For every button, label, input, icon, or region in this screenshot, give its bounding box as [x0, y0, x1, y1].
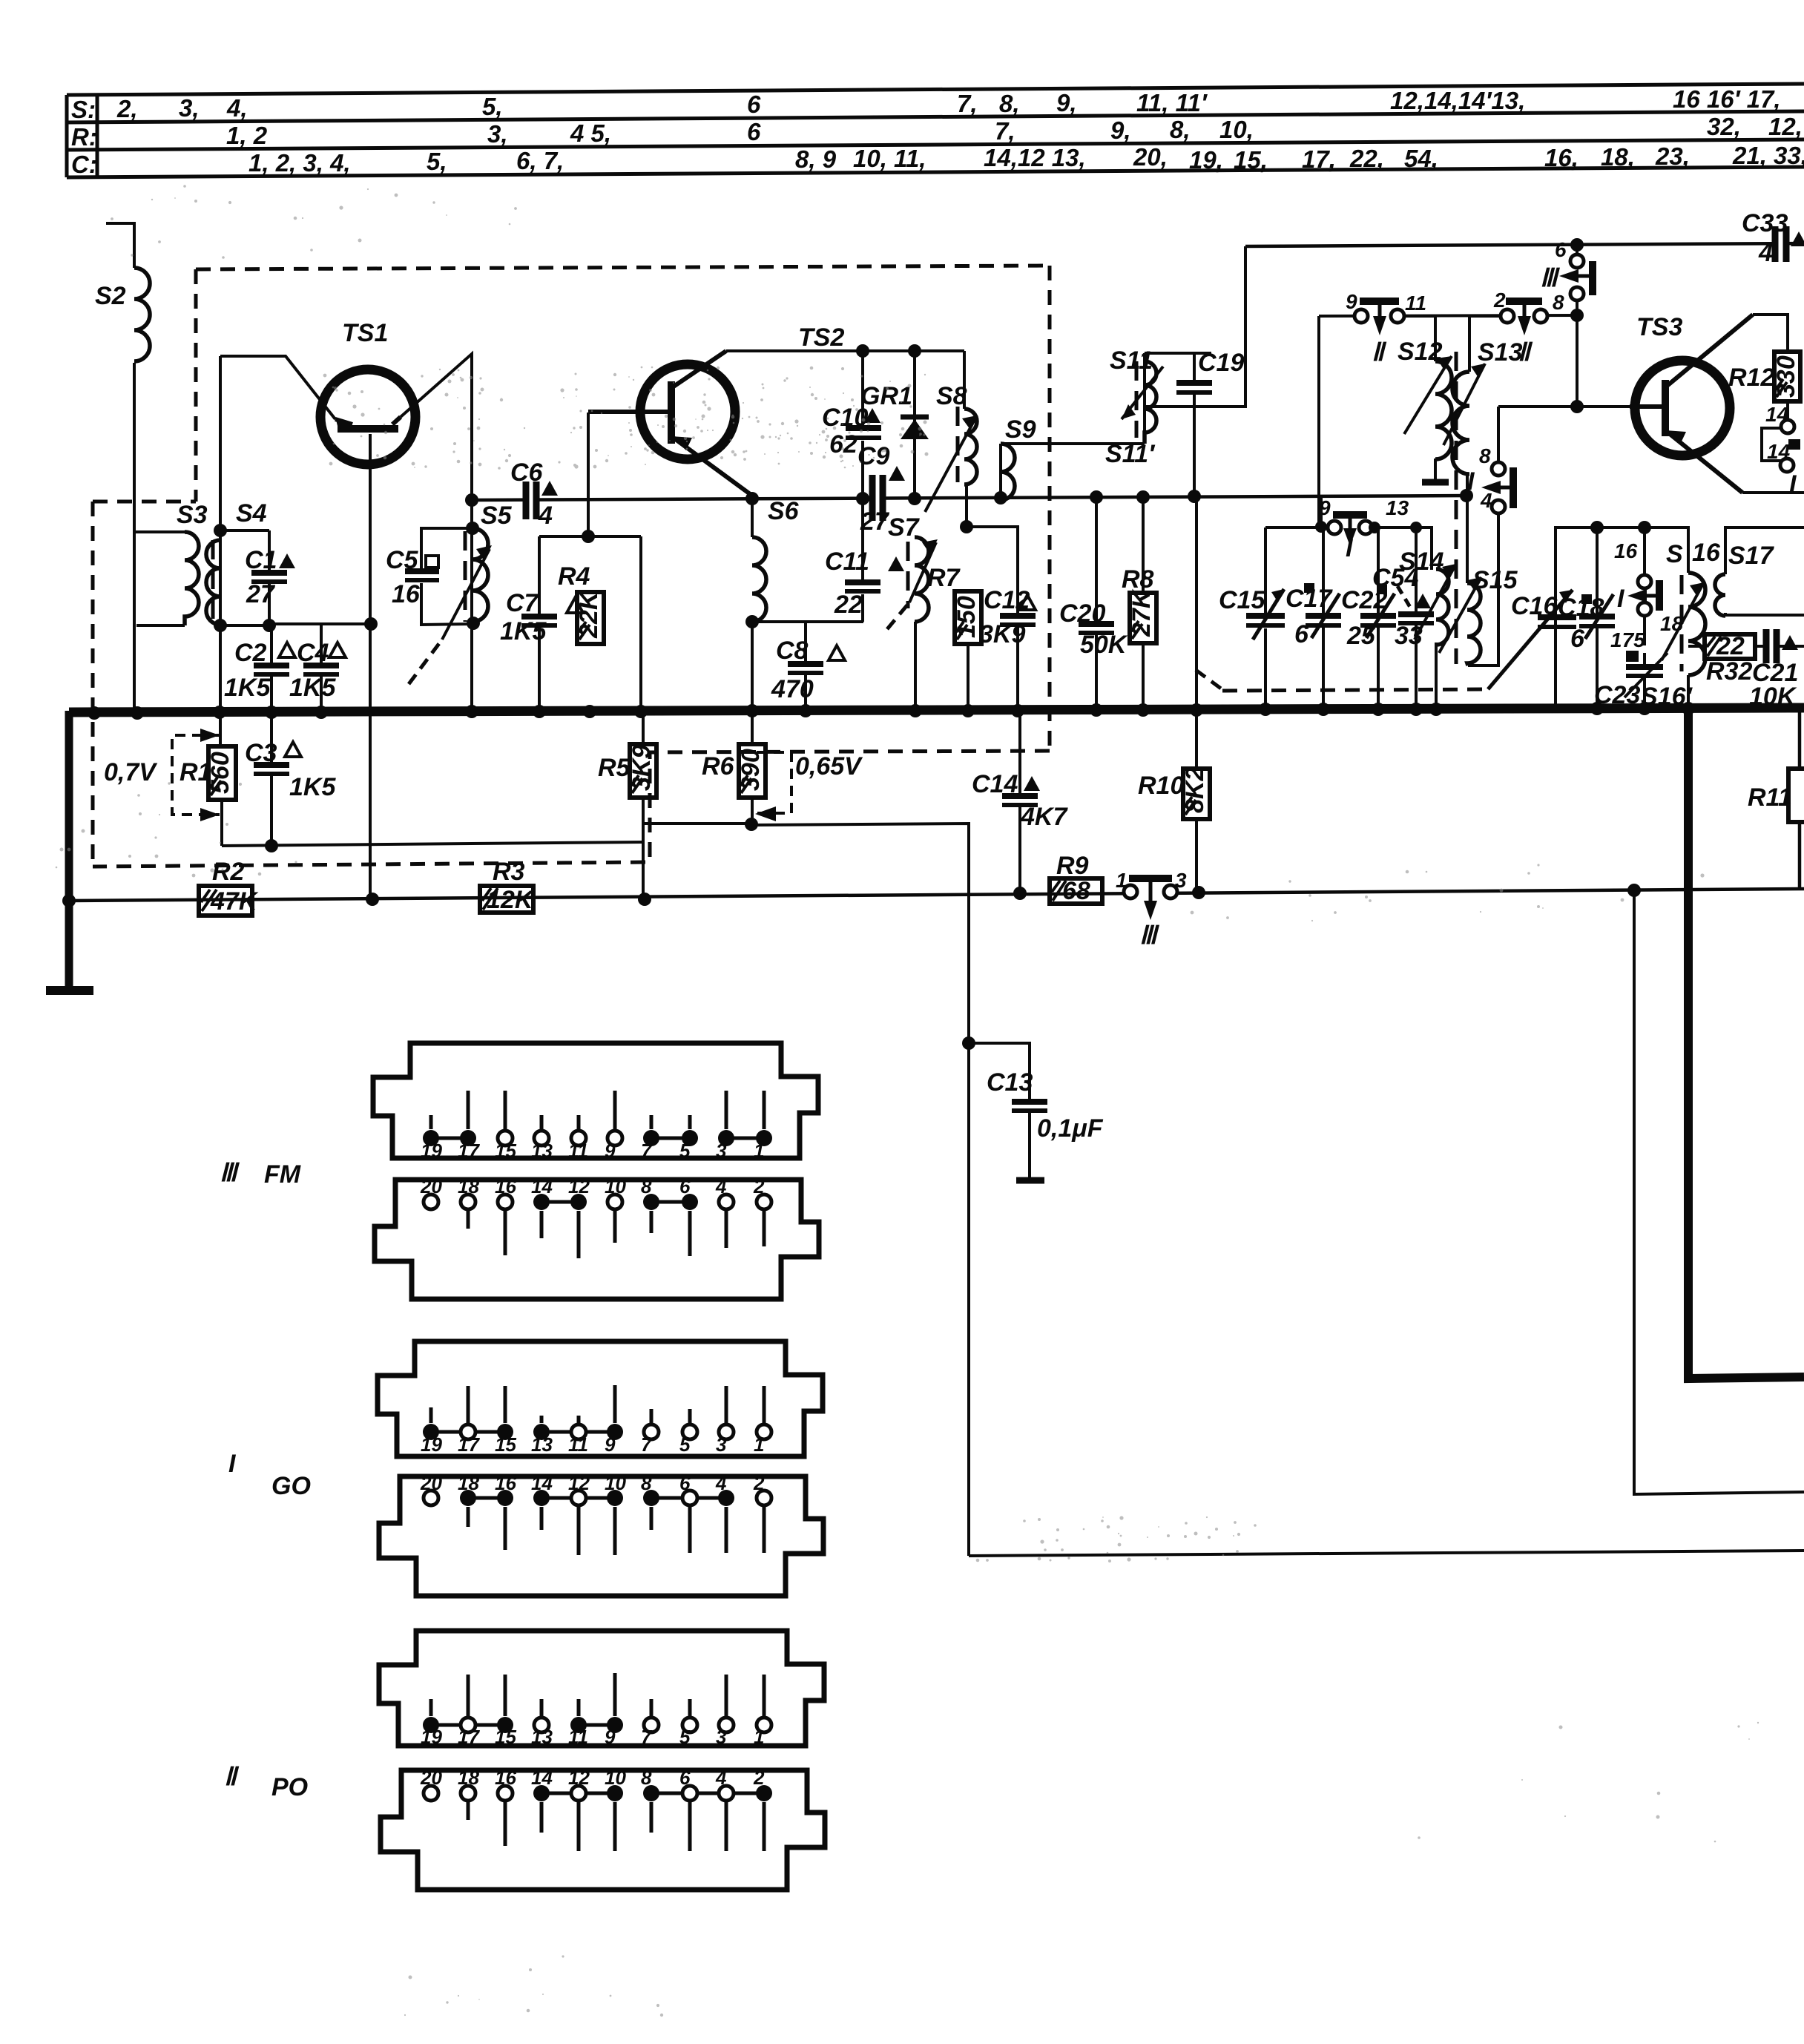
mark C22 filled square: [1377, 585, 1387, 594]
svg-text:C20: C20: [1059, 599, 1105, 628]
svg-text:11: 11: [568, 1140, 588, 1162]
mark C3 open triangle: [285, 742, 301, 757]
svg-text:C10: C10: [822, 404, 868, 432]
svg-text:I: I: [1467, 467, 1475, 496]
svg-text:20,: 20,: [1133, 143, 1168, 171]
svg-text:15,: 15,: [1234, 146, 1268, 174]
wire C19 lower: [1193, 393, 1196, 496]
dashed core S5: [464, 531, 467, 622]
svg-text:17,: 17,: [1302, 145, 1336, 173]
VARIABLE / TRIMMER CAPACITORS: [1246, 589, 1663, 689]
mark C18 filled square: [1581, 594, 1592, 604]
wire S11/C19 top y=475: [1145, 352, 1211, 355]
GO1 pin contacts: [423, 1424, 439, 1440]
arrow S5: [442, 549, 490, 640]
mark C1 filled triangle: [279, 553, 295, 568]
svg-text:0,65V: 0,65V: [795, 752, 863, 781]
wire switch18 column: [1643, 528, 1646, 575]
capacitor C33: [1775, 226, 1786, 262]
svg-text:C23: C23: [1594, 681, 1640, 709]
wire C4 top row y=841: [269, 622, 371, 625]
svg-text:18: 18: [458, 1175, 479, 1197]
dashed gang diag C15: [1196, 670, 1224, 691]
wire switch I to S15 bottom: [1468, 513, 1498, 666]
svg-text:S13: S13: [1478, 338, 1523, 367]
svg-text:14,12 13,: 14,12 13,: [984, 144, 1086, 171]
wire R7 C12 top y=712: [967, 527, 1018, 615]
svg-text:16: 16: [1614, 539, 1638, 562]
svg-text:TS2: TS2: [798, 323, 844, 352]
gap C6: [530, 493, 533, 505]
wire C54 to bus: [1415, 623, 1418, 709]
svg-text:C1: C1: [245, 546, 277, 574]
wire TS3 switch row y=425: [1319, 315, 1577, 316]
wire S17 top: [1725, 528, 1804, 574]
wire R1 below bus: [219, 711, 222, 746]
svg-text:2: 2: [1493, 289, 1506, 312]
GO1 pin stems: [429, 1407, 433, 1423]
wire switch III top: [1576, 245, 1578, 255]
svg-text:14: 14: [531, 1767, 553, 1789]
dashed core S12/S13: [1455, 352, 1458, 664]
svg-text:S2: S2: [95, 282, 126, 310]
svg-text:12,: 12,: [1768, 113, 1803, 140]
svg-text:13: 13: [531, 1140, 553, 1162]
svg-text:C6: C6: [510, 459, 544, 487]
contact 14 lower: [1780, 459, 1794, 472]
table left border: [65, 95, 69, 177]
ground S12: [1422, 479, 1449, 486]
svg-text:C5: C5: [386, 546, 419, 574]
svg-text:8,: 8,: [999, 90, 1020, 117]
svg-text:22: 22: [1716, 632, 1745, 660]
TABLE: [67, 84, 1804, 178]
CAPACITORS (fixed, horizontal plates): [251, 383, 1212, 1111]
wire C21 out: [1777, 645, 1804, 648]
svg-text:11: 11: [568, 1433, 588, 1456]
PO1 pin contacts: [423, 1717, 439, 1733]
svg-text:27: 27: [246, 580, 276, 608]
switch I (8-4) TS3 base: [1481, 462, 1513, 513]
svg-text:1: 1: [754, 1433, 764, 1456]
svg-text:12,14,14′13,: 12,14,14′13,: [1390, 87, 1525, 114]
label III FM: [220, 1159, 311, 1801]
wire S12 top link: [1398, 316, 1435, 361]
svg-text:S4: S4: [236, 499, 267, 528]
svg-text:6: 6: [1570, 625, 1585, 653]
svg-text:C12: C12: [984, 586, 1030, 614]
svg-text:4: 4: [538, 502, 553, 530]
svg-text:16: 16: [392, 580, 421, 608]
wire C19 riser: [1145, 246, 1245, 407]
table bottom border: [67, 167, 1804, 177]
svg-text:I: I: [1617, 585, 1625, 613]
svg-text:2: 2: [753, 1175, 765, 1197]
switch I (9-13) MW block: [1328, 515, 1372, 546]
wire S13 bottom to S15 top: [1466, 476, 1469, 583]
wire link y669 to y711: [1320, 496, 1323, 527]
svg-text:C19: C19: [1198, 349, 1244, 377]
svg-text:18,: 18,: [1601, 143, 1635, 171]
dashed FM box top: [196, 266, 1050, 269]
wire C12 to bus: [1016, 625, 1019, 710]
wire C3 bottom: [270, 772, 273, 846]
svg-text:9: 9: [605, 1726, 616, 1748]
svg-text:R8: R8: [1122, 565, 1154, 594]
svg-text:5,: 5,: [482, 93, 503, 120]
wire C18 to bus: [1596, 627, 1599, 708]
svg-text:8, 9: 8, 9: [795, 145, 837, 173]
capacitor C10: [846, 428, 881, 438]
svg-text:7: 7: [641, 1433, 653, 1456]
capacitor C16 (variable, long arrow): [1488, 590, 1576, 689]
table R/C divider: [67, 139, 1804, 150]
INLINE CAPACITORS (vertical plates): [526, 226, 1786, 663]
svg-text:12: 12: [568, 1175, 590, 1197]
coil S15: [1467, 583, 1481, 666]
wire C13 bottom stem: [1028, 1112, 1031, 1179]
wire R5R6 row to R3 line: [642, 824, 645, 898]
resistor R6 390: [739, 744, 766, 798]
wire MW block top y=711: [1265, 528, 1432, 570]
svg-text:0,7V: 0,7V: [104, 758, 158, 786]
svg-text:11: 11: [568, 1726, 588, 1748]
wire S9 to S11 y=597: [1001, 442, 1145, 445]
bus left drop (thick): [65, 711, 73, 988]
svg-text:27: 27: [860, 507, 890, 536]
gap C33: [1779, 239, 1783, 250]
svg-text:4: 4: [715, 1175, 727, 1197]
mark C17 filled square: [1304, 583, 1314, 593]
svg-text:17: 17: [458, 1726, 480, 1748]
TRANSISTORS: [320, 315, 1753, 496]
svg-text:16,: 16,: [1544, 144, 1578, 171]
switch block GO upper plate: [378, 1341, 823, 1456]
svg-text:S8: S8: [936, 382, 967, 410]
transistor TS2: [640, 364, 735, 459]
wire C10 column: [861, 351, 864, 425]
mark C11 filled triangle: [888, 556, 904, 571]
dashed tail S5 arrow: [409, 640, 442, 684]
svg-text:9,: 9,: [1056, 89, 1077, 116]
svg-text:22,: 22,: [1349, 145, 1384, 172]
svg-text:22K: 22K: [575, 590, 603, 639]
svg-text:33: 33: [1395, 622, 1423, 650]
svg-text:13: 13: [1386, 496, 1409, 519]
wire R32 to C21: [1755, 645, 1765, 648]
svg-text:PO: PO: [271, 1773, 308, 1801]
svg-text:9: 9: [605, 1433, 616, 1456]
DASHED BOUNDARIES: [93, 266, 1682, 867]
svg-text:GO: GO: [271, 1472, 311, 1500]
gap C21: [1770, 641, 1774, 652]
svg-text:14: 14: [1767, 440, 1791, 463]
capacitor C9: [872, 475, 883, 521]
capacitor C23 (trimmer): [1626, 667, 1663, 676]
svg-text:3K9: 3K9: [628, 745, 656, 791]
svg-text:4: 4: [715, 1767, 727, 1789]
wire C8 branch: [804, 622, 807, 663]
svg-text:12K: 12K: [487, 886, 535, 914]
svg-text:C4: C4: [297, 639, 329, 667]
mark C14 filled triangle: [1024, 776, 1040, 791]
switch block FM lower plate: [375, 1180, 819, 1299]
svg-text:23,: 23,: [1655, 142, 1690, 170]
mark C7 open triangle: [567, 598, 583, 613]
svg-text:7: 7: [641, 1140, 653, 1162]
coil S7: [915, 537, 929, 622]
svg-text:10, 11,: 10, 11,: [853, 145, 926, 172]
arrow S12: [1404, 356, 1452, 434]
svg-text:5: 5: [679, 1433, 691, 1456]
svg-text:1: 1: [1116, 869, 1127, 892]
wire TS1 collector arm: [401, 354, 472, 502]
svg-text:1, 2: 1, 2: [226, 122, 268, 149]
svg-text:I: I: [1346, 534, 1354, 562]
svg-text:S16′: S16′: [1641, 683, 1693, 711]
svg-text:7: 7: [641, 1726, 653, 1748]
wire audio line bottom: [969, 1551, 1804, 1556]
capacitor C1: [251, 573, 287, 582]
wire S12 ground stem: [1434, 459, 1437, 482]
svg-text:50K: 50K: [1080, 631, 1128, 659]
svg-text:8: 8: [641, 1767, 652, 1789]
mark C4 open triangle: [329, 643, 346, 657]
svg-text:6, 7,: 6, 7,: [516, 147, 564, 174]
svg-text:C14: C14: [972, 770, 1018, 798]
wire S6 junction tail: [999, 444, 1002, 498]
svg-text:14: 14: [531, 1175, 553, 1197]
PO2 pin contacts: [424, 1786, 438, 1801]
coil S9: [1001, 444, 1015, 500]
svg-text:S3: S3: [177, 501, 208, 529]
svg-text:R:: R:: [71, 123, 97, 151]
wire R1 bottom: [220, 800, 223, 846]
wire C4 branch: [320, 624, 323, 664]
svg-text:3K9: 3K9: [979, 620, 1025, 648]
svg-text:3,: 3,: [179, 94, 200, 122]
svg-text:1K5: 1K5: [289, 674, 336, 702]
svg-text:R9: R9: [1056, 852, 1089, 880]
table label column divider: [96, 95, 99, 177]
wire C14 bottom: [1018, 805, 1021, 893]
capacitor C4: [303, 666, 339, 674]
mark C23 filled square: [1626, 651, 1639, 662]
FM2 link bars: [541, 1200, 579, 1204]
svg-text:C7: C7: [506, 589, 540, 617]
wire C20 to bus: [1095, 633, 1098, 709]
wire C1 to row842: [268, 581, 271, 625]
svg-text:560: 560: [206, 752, 234, 794]
svg-text:54,: 54,: [1404, 145, 1438, 172]
svg-text:20: 20: [420, 1767, 442, 1789]
capacitor C2: [254, 666, 289, 674]
svg-text:11: 11: [1405, 292, 1426, 315]
node dots misc: [214, 524, 227, 537]
capacitor C22 (trimmer): [1360, 594, 1396, 638]
capacitor C8: [788, 664, 823, 673]
svg-text:I: I: [228, 1450, 237, 1478]
PO1 link bars: [431, 1723, 505, 1727]
svg-text:6: 6: [679, 1472, 691, 1494]
wire row y=842: [220, 624, 269, 627]
mark C21 filled triangle: [1782, 635, 1798, 650]
dashed FM box right: [1048, 266, 1052, 751]
arrow R6 bottom: [755, 806, 776, 821]
resistor R5 3K9: [630, 744, 656, 798]
wire S14 bottom to bus: [1435, 643, 1438, 709]
mark C12 open triangle: [1019, 595, 1036, 610]
mark C8 open triangle: [829, 645, 845, 660]
arrow S11: [1122, 367, 1163, 419]
wire C4 to bus: [320, 674, 323, 711]
mark C10 filled triangle: [864, 408, 880, 423]
wire TS3 base to switch I drop: [1497, 407, 1500, 461]
switch II (2-8): [1501, 301, 1547, 335]
wire S8 drop: [963, 351, 966, 409]
resistor R7 150: [955, 591, 981, 644]
COILS: [134, 268, 1725, 675]
svg-text:22: 22: [834, 591, 863, 619]
svg-text:C18: C18: [1558, 594, 1604, 622]
wire switch18 lower: [1643, 615, 1646, 645]
wire R6 bottom: [751, 797, 754, 825]
svg-text:16: 16: [495, 1175, 516, 1197]
svg-text:15: 15: [495, 1140, 516, 1162]
svg-text:4K7: 4K7: [1020, 803, 1068, 831]
svg-text:GR1: GR1: [860, 382, 912, 410]
wire S16 to R32: [1688, 645, 1705, 648]
wire C2/C3 column: [270, 625, 273, 664]
svg-text:C8: C8: [776, 637, 809, 665]
wire R8 to bus: [1142, 643, 1145, 709]
wire TS1 base column: [369, 434, 372, 898]
svg-text:27K: 27K: [1127, 588, 1156, 637]
switch III (6-8) near C33: [1559, 254, 1593, 300]
wire spare branch x=864: [639, 536, 642, 711]
wire GR1 column: [913, 351, 916, 499]
capacitor C12: [1000, 616, 1036, 625]
capacitor C54: [1398, 614, 1434, 623]
svg-text:8K2: 8K2: [1181, 767, 1209, 813]
svg-text:C3: C3: [245, 739, 277, 767]
svg-text:8: 8: [1553, 291, 1564, 314]
wire TS2 collector top y=473: [726, 349, 964, 352]
wire S11 column: [1143, 353, 1146, 444]
svg-text:3: 3: [716, 1433, 727, 1456]
svg-text:C54: C54: [1372, 564, 1418, 592]
svg-text:S:: S:: [71, 96, 96, 123]
mark C6 filled triangle: [541, 481, 558, 496]
dashed core S11: [1135, 361, 1139, 438]
gap switch 9-11: [1369, 309, 1391, 322]
svg-text:C2: C2: [234, 639, 267, 667]
dashed core S8: [956, 407, 960, 482]
wire C7 branch: [538, 536, 541, 616]
GO2 link bars: [468, 1496, 505, 1500]
capacitor C19: [1176, 383, 1212, 392]
switch I (16-18) SW block: [1627, 575, 1659, 616]
dashed leader C54: [1398, 586, 1411, 608]
VARIABLE ARROWS on coils: [442, 356, 1704, 697]
wire S16 bottom to bus: [1687, 675, 1690, 708]
svg-text:16 16′ 17,: 16 16′ 17,: [1673, 85, 1781, 113]
capacitor C11: [845, 582, 880, 591]
arrow S7: [909, 542, 936, 602]
svg-text:S12: S12: [1398, 338, 1443, 366]
wire C54 column: [1415, 528, 1418, 614]
svg-text:15: 15: [495, 1726, 516, 1748]
svg-text:10: 10: [605, 1472, 626, 1494]
coil S6: [752, 537, 766, 622]
resistor R12 330: [1774, 352, 1800, 401]
svg-text:9: 9: [1319, 496, 1331, 519]
svg-text:1: 1: [754, 1140, 764, 1162]
svg-text:6: 6: [679, 1767, 691, 1789]
svg-text:I: I: [1789, 470, 1797, 499]
resistor R32 22: [1705, 634, 1755, 659]
resistor R8 27K: [1130, 593, 1156, 643]
coil S8: [964, 409, 977, 484]
wire R11 bottom: [1798, 822, 1802, 889]
capacitor C14: [1002, 796, 1038, 805]
resistor R2 47K: [199, 886, 252, 916]
wire C11/C8 bottom y=838: [752, 620, 863, 623]
svg-text:150: 150: [952, 596, 981, 638]
wire R5 bottom junction row y=1110: [643, 798, 752, 824]
FM2 pin contacts: [424, 1194, 438, 1209]
svg-text:9,: 9,: [1110, 116, 1131, 144]
gap switch 9-13: [1342, 522, 1358, 533]
capacitor C5: [405, 571, 439, 580]
wire R6 bias to C13 drop: [752, 824, 969, 1556]
svg-text:3: 3: [716, 1726, 727, 1748]
arrow S16b C23: [1624, 653, 1668, 697]
arrow S14: [1415, 564, 1456, 640]
resistor R10 8K2: [1183, 769, 1210, 819]
wire C3 below bus: [270, 711, 273, 763]
capacitor C3: [254, 765, 289, 774]
svg-text:7,: 7,: [957, 90, 978, 117]
wire C5 box top: [421, 528, 473, 568]
wire C22 column: [1377, 528, 1380, 615]
wire C18 column: [1596, 528, 1599, 617]
wire TS3 collector: [1753, 315, 1788, 352]
svg-text:6: 6: [747, 91, 761, 118]
coil S13: [1452, 372, 1469, 474]
DIODE GR1: [901, 417, 929, 439]
svg-text:20: 20: [420, 1472, 442, 1494]
resistor R4 22K: [577, 592, 604, 644]
svg-text:1K5: 1K5: [289, 773, 336, 801]
wire S17 bottom: [1725, 613, 1804, 615]
wire S3 top y=717: [134, 530, 185, 533]
svg-text:TS1: TS1: [342, 319, 388, 347]
wire C20 column: [1095, 497, 1098, 623]
coil S4: [206, 540, 220, 625]
svg-text:3,: 3,: [487, 120, 508, 148]
wire SW block top y=710: [1556, 528, 1688, 708]
wire S4/C1 top y=715: [220, 529, 269, 532]
dashed core S16: [1680, 575, 1684, 671]
svg-text:19,: 19,: [1189, 146, 1223, 174]
capacitor C7: [521, 617, 557, 625]
capacitor C15 (variable): [1246, 589, 1285, 640]
wire C8 to bus: [804, 674, 807, 710]
mark C9 filled triangle: [889, 466, 905, 481]
svg-text:12: 12: [568, 1767, 590, 1789]
resistor R9 68: [1050, 878, 1102, 904]
